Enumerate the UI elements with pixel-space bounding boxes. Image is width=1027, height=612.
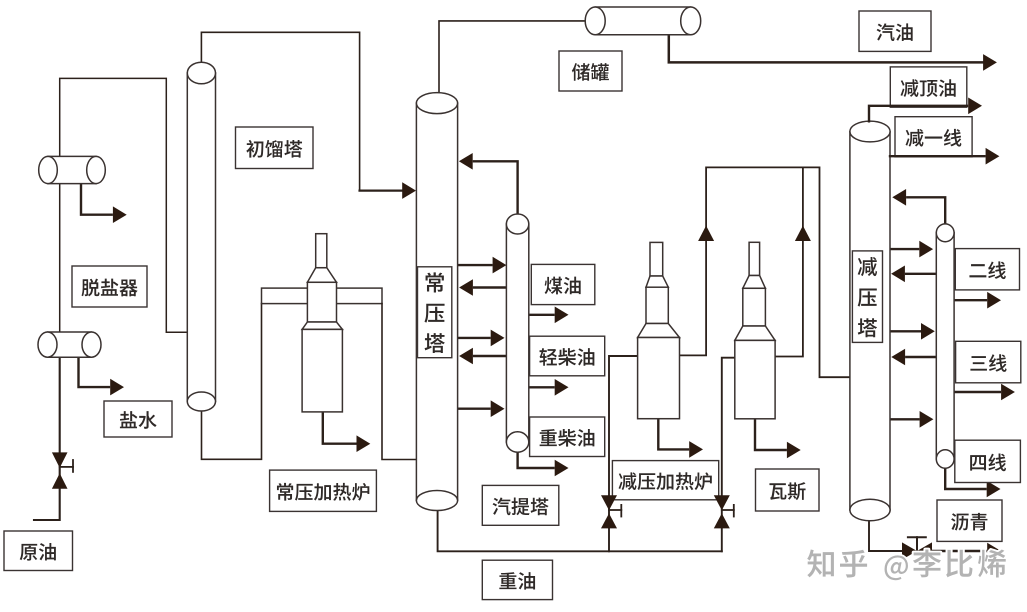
label box 沥青 — [937, 500, 1002, 541]
wire furnace1 outlet arrow — [323, 412, 371, 452]
watermark zhihu — [807, 550, 1006, 581]
label atmospheric tower vertical — [418, 267, 452, 358]
wire vac draw to stripper2 a — [890, 241, 933, 258]
wire storage tank to gasoline arrow — [669, 35, 997, 71]
wire desalter2 brine draw — [79, 357, 125, 395]
wire atm draw to stripper1 middle — [458, 330, 505, 347]
wire stripper2 return a — [891, 266, 936, 283]
wire vac draw to stripper2 c — [890, 411, 933, 428]
wire atm draw to stripper1 bottom — [458, 400, 505, 417]
wire furnace1 transfer to atm tower — [382, 304, 416, 460]
wire riser valve V2 to furnace F2 — [609, 356, 638, 551]
wire stripper2 return b — [891, 349, 935, 366]
wire kerosene product arrow — [529, 307, 569, 324]
label box 减压加热炉 — [612, 461, 718, 500]
wire atm tower overhead to storage tank — [439, 21, 586, 93]
furnace F3 (vacuum heater second) — [735, 242, 775, 418]
initial distillation tower (chu liu ta) — [187, 73, 215, 402]
label box 原油 — [4, 531, 73, 571]
side stripper column (vacuum) — [936, 233, 954, 459]
wire initial tower overhead to atm tower — [201, 32, 359, 189]
exchanger/desalter E2 — [48, 332, 92, 357]
furnace F2 (vacuum heater) — [638, 242, 680, 418]
label box 汽油 — [859, 11, 931, 51]
label box 汽提塔 — [482, 485, 559, 525]
label vacuum tower vertical — [852, 251, 882, 343]
wire stripper1 overhead return — [459, 153, 518, 214]
valve V4 asphalt (horizontal) — [902, 537, 932, 559]
label box 常压加热炉 — [270, 470, 377, 511]
label box 盐水 — [104, 401, 172, 437]
label box 四线 — [955, 440, 1021, 482]
label box 初馏塔 — [236, 127, 314, 169]
wire furnace F2 outlet riser to header — [680, 167, 850, 377]
wire stripper1 return lower — [459, 348, 506, 365]
label box 减一线 — [895, 117, 972, 157]
valve V1 crude — [52, 452, 73, 488]
wire furnace F2 bottom outlet arrow — [658, 419, 703, 458]
wire atm draw to stripper1 top — [458, 257, 507, 274]
wire line2 product (er xian) — [954, 292, 1001, 309]
exchanger/desalter E1 — [48, 156, 96, 183]
wire heavy diesel product from stripper1 bottom — [518, 452, 569, 476]
arrowhead riser F3 up — [795, 226, 811, 241]
wire line4 product from stripper2 bottom — [945, 468, 1000, 497]
valve V3 — [714, 495, 734, 528]
label box 重柴油 — [530, 417, 605, 457]
atmospheric tower (chang ya ta) — [416, 103, 457, 500]
wire vacuum tower bottoms to asphalt — [869, 520, 902, 551]
label box 三线 — [956, 341, 1021, 383]
label box 储罐 — [559, 51, 622, 91]
wire stripper1 return upper — [459, 279, 506, 296]
furnace F1 (atmospheric heater) body — [302, 234, 342, 412]
vacuum tower (jian ya ta) — [850, 132, 890, 511]
label box 轻柴油 — [530, 336, 605, 376]
wire vac draw to stripper2 b — [890, 323, 935, 340]
arrowhead riser F2 up — [698, 226, 714, 241]
wire furnace F3 outlet riser — [775, 167, 803, 356]
stripping tower (qi ti ta) — [506, 224, 528, 442]
label box 脱盐器 — [72, 266, 147, 307]
valve V2 — [601, 495, 621, 528]
wire feed arrow into atm tower — [360, 182, 416, 199]
wire crude oil inlet — [34, 344, 60, 520]
wire desalter1 water draw — [81, 184, 127, 223]
storage tank (chu guan) — [595, 7, 691, 35]
wire light diesel product arrow — [529, 379, 569, 396]
label box 二线 — [955, 249, 1019, 290]
wire crude between exchangers and to initial tower — [60, 78, 187, 344]
wire vacuum tower top oil (jian ding you) — [869, 98, 982, 122]
wire vacuum line1 product (jian yi xian) — [890, 148, 999, 165]
wire riser valve V3 to furnace F3 — [722, 358, 734, 552]
wire atm tower bottoms (heavy oil) — [438, 510, 722, 551]
wire furnace F3 bottom outlet arrow (to gas) — [755, 419, 801, 459]
wire asphalt product arrow — [932, 543, 1001, 560]
wire initial tower bottoms to furnace1 — [202, 304, 262, 460]
label box 瓦斯 — [756, 469, 820, 511]
label box 煤油 — [531, 264, 595, 304]
wire stripper2 overhead return — [892, 189, 945, 224]
label box 重油 — [482, 560, 552, 599]
furnace F1 hearth band — [262, 288, 383, 304]
wire line3 product (san xian) — [954, 384, 1015, 401]
label box 减顶油 — [890, 67, 967, 107]
